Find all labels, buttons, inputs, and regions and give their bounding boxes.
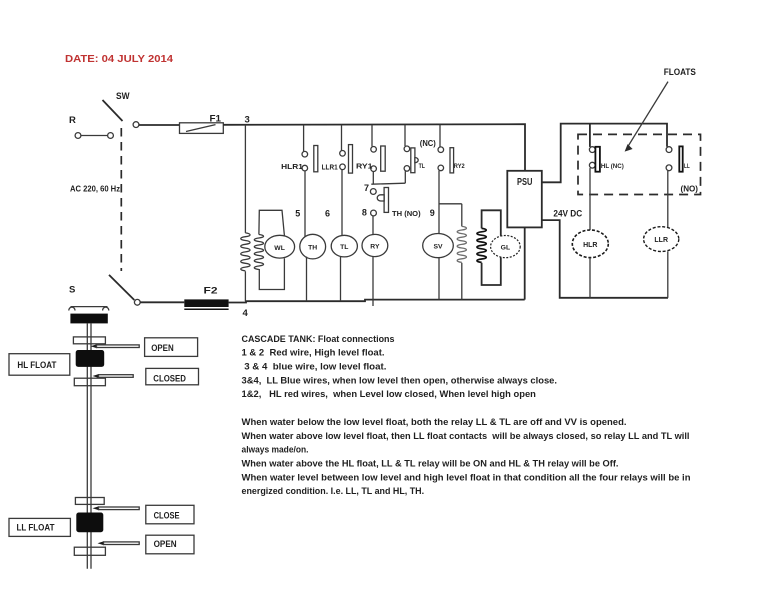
svg-text:9: 9: [430, 208, 435, 218]
svg-text:(NC): (NC): [420, 139, 436, 148]
wire RY1/TL to node 7 junction: [371, 171, 405, 184]
wire F1 to PSU (top bus): [223, 124, 525, 171]
floats dashed enclosure: [578, 134, 701, 194]
power supply PSU: [507, 171, 542, 228]
lamp TL: [331, 235, 357, 257]
svg-text:When water level between low l: When water level between low level and h…: [242, 472, 691, 482]
wire left branch node3 to node4: [244, 125, 246, 301]
pointer CLOSE (LL): [93, 506, 140, 510]
fuse F1: [180, 113, 224, 133]
svg-text:LLR: LLR: [654, 237, 668, 244]
label box OPEN (HL): [145, 338, 198, 357]
lamp TH: [300, 234, 326, 259]
svg-text:HLR1: HLR1: [281, 162, 303, 171]
svg-text:CASCADE TANK: Float connection: CASCADE TANK: Float connections: [242, 334, 395, 344]
wire LLR1 to lamp TL: [341, 170, 343, 236]
lamp SV: [423, 234, 454, 258]
wire lamp HLR to return rail: [589, 258, 591, 298]
switch SW: [103, 91, 139, 128]
wire RY2 to lamp SV: [438, 171, 440, 234]
svg-text:SV: SV: [433, 244, 443, 251]
node 8: [362, 208, 377, 218]
label box LL FLOAT: [9, 518, 70, 536]
svg-text:8: 8: [362, 208, 367, 218]
svg-text:1 & 2 Red wire, High level fl: 1 & 2 Red wire, High level float.: [242, 348, 385, 358]
svg-text:DATE: 04 JULY 2014: DATE: 04 JULY 2014: [65, 54, 173, 65]
svg-text:6: 6: [325, 209, 330, 219]
lamp HLR: [572, 230, 608, 258]
collar 4: [74, 547, 105, 555]
pointer OPEN (HL): [91, 344, 140, 348]
resistor + lamp GL parallel loop: [482, 210, 501, 285]
svg-text:HL FLOAT: HL FLOAT: [17, 360, 56, 371]
float LL: [76, 513, 103, 533]
svg-text:CLOSED: CLOSED: [153, 374, 186, 385]
node 7: [364, 183, 376, 194]
svg-text:TH (NO): TH (NO): [392, 209, 421, 218]
svg-text:7: 7: [364, 183, 369, 193]
pointer CLOSED (HL): [93, 374, 134, 378]
svg-text:RY1: RY1: [356, 162, 373, 171]
collar 2: [74, 378, 105, 386]
wire HL contact to lamp HLR: [589, 168, 591, 230]
svg-text:GL: GL: [501, 245, 510, 252]
svg-text:LL: LL: [684, 163, 690, 170]
label box OPEN (LL): [146, 535, 194, 554]
float contact LL: [666, 146, 690, 171]
wire PSU right top to 24V rail: [542, 124, 667, 183]
svg-text:(NO): (NO): [681, 183, 699, 193]
svg-text:S: S: [69, 285, 75, 296]
svg-text:R: R: [69, 115, 76, 126]
wire lamp TH to bus 4: [306, 257, 308, 302]
contact LLR1: [322, 125, 353, 173]
svg-text:TL: TL: [419, 163, 425, 170]
svg-text:3&4, LL Blue wires, when low: 3&4, LL Blue wires, when low level then …: [242, 375, 558, 385]
svg-text:PSU: PSU: [517, 177, 532, 188]
svg-text:always made/on.: always made/on.: [242, 445, 309, 455]
contact RY1: [356, 125, 385, 172]
lamp RY: [362, 234, 388, 256]
svg-text:HLR: HLR: [583, 242, 597, 249]
svg-text:24V DC: 24V DC: [553, 208, 582, 219]
resistor + lamp WL parallel loop: [259, 210, 285, 289]
svg-text:When water below the low level: When water below the low level float, bo…: [242, 417, 627, 427]
svg-text:OPEN: OPEN: [151, 343, 174, 354]
label box CLOSED (HL): [146, 368, 199, 384]
lamp WL: [265, 235, 295, 258]
wire RY2 branch to resistor: [439, 204, 462, 300]
float rod top bracket: [69, 307, 109, 311]
pointer OPEN (LL): [98, 541, 140, 545]
svg-text:3: 3: [245, 115, 250, 126]
wire lamp RY to bus 4: [372, 257, 374, 307]
float contact HL (NC): [589, 147, 623, 172]
contact TL (NC): [404, 125, 425, 173]
wire LL contact to lamp LLR: [667, 171, 669, 227]
collar 1: [73, 337, 105, 344]
wire SW to F1: [139, 124, 180, 126]
resistor left branch: [241, 233, 250, 271]
svg-text:3 & 4 blue wire, low level fl: 3 & 4 blue wire, low level float.: [242, 362, 387, 372]
float rod cap bar: [70, 314, 107, 324]
label box HL FLOAT: [9, 354, 70, 376]
collar 3: [75, 498, 104, 505]
svg-text:RY2: RY2: [454, 163, 465, 170]
switch S: [69, 275, 140, 305]
resistor GL loop left side: [477, 228, 486, 262]
svg-text:When water above low level flo: When water above low level float, then L…: [242, 431, 690, 441]
svg-text:4: 4: [243, 308, 249, 319]
svg-text:LLR1: LLR1: [322, 163, 338, 172]
dashed AC phase line: [120, 128, 122, 271]
wire HLR1 to lamp TH: [304, 171, 306, 238]
fuse F2: [184, 286, 228, 310]
wire lamp LLR to return rail: [667, 251, 669, 297]
svg-text:5: 5: [295, 209, 300, 219]
contact HLR1: [281, 125, 318, 172]
svg-text:F2: F2: [204, 286, 218, 297]
float rod: [87, 323, 91, 568]
notes text block: [242, 334, 691, 496]
wire PSU right bottom to 24V return rail: [542, 220, 668, 298]
wire S to F2: [140, 301, 184, 303]
svg-text:TL: TL: [340, 244, 348, 251]
svg-text:HL (NC): HL (NC): [601, 163, 624, 170]
svg-text:FLOATS: FLOATS: [664, 67, 696, 78]
label box CLOSE (LL): [146, 505, 194, 524]
lamp LLR: [644, 227, 679, 252]
svg-text:1&2, HL red wires, when Lev: 1&2, HL red wires, when Level low closed…: [242, 389, 537, 399]
svg-text:When water above the HL float,: When water above the HL float, LL & TL r…: [242, 459, 619, 469]
float HL: [76, 350, 105, 367]
resistor WL loop left side: [254, 235, 263, 270]
svg-text:F1: F1: [210, 113, 222, 124]
wire lamp TL to bus 4: [340, 257, 342, 302]
svg-text:energized condition. I.e. LL,: energized condition. I.e. LL, TL and HL,…: [242, 486, 425, 496]
svg-text:OPEN: OPEN: [154, 539, 177, 550]
lamp GL: [491, 236, 521, 258]
wire node 8 to lamp RY: [372, 216, 374, 235]
contact TH (NO): [377, 188, 421, 219]
wire PSU bottom to bus 4: [524, 227, 526, 299]
svg-text:CLOSE: CLOSE: [154, 510, 180, 521]
svg-text:TH: TH: [308, 245, 317, 252]
wire lamp SV to bus 4: [438, 258, 440, 300]
wire F2 to node 4 / bottom bus: [229, 300, 525, 303]
arrow FLOATS to HL contact: [625, 82, 668, 152]
svg-text:LL FLOAT: LL FLOAT: [17, 523, 55, 534]
resistor right of SV: [457, 226, 466, 262]
contact RY2: [438, 125, 465, 173]
wire 24V rail to HL contact: [589, 124, 591, 147]
svg-text:AC 220, 60 Hz: AC 220, 60 Hz: [70, 185, 120, 194]
svg-text:RY: RY: [370, 243, 380, 250]
terminal R: [69, 115, 113, 138]
svg-text:WL: WL: [274, 245, 285, 252]
svg-text:SW: SW: [116, 91, 130, 102]
